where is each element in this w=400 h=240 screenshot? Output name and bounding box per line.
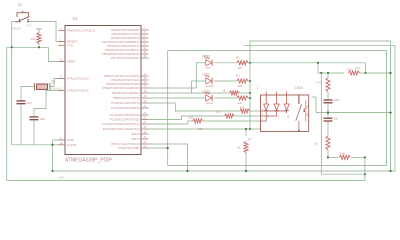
resistor R12 1k	[230, 91, 239, 95]
pin PD5(T1/OC0B) stub	[141, 147, 149, 149]
svg-text:PB5(SCK/PCINT5): PB5(SCK/PCINT5)	[113, 96, 139, 100]
wire long vertical mid	[167, 51, 169, 166]
wire C1 to GND	[20, 104, 22, 145]
wire right column outer vertical to riser	[321, 73, 365, 174]
junction col mid 2	[327, 112, 329, 114]
resistor R8 10k	[349, 71, 360, 75]
svg-text:B: B	[288, 115, 290, 118]
junction long vertical	[167, 147, 169, 149]
svg-text:9: 9	[60, 76, 62, 79]
svg-text:AREF: AREF	[67, 60, 75, 64]
LED4 common switch element	[296, 95, 302, 131]
resistor R6 220	[193, 119, 203, 123]
wire pin to GND vertical	[149, 147, 168, 149]
pin XTAL1(TOSC1) stub	[58, 78, 65, 80]
pin ADC7 stub	[141, 138, 149, 140]
pin PB0(PCINT0/CLKO/ICP1) stub	[141, 75, 149, 77]
svg-text:R4: R4	[240, 106, 244, 110]
svg-text:VCC: VCC	[26, 24, 32, 28]
wire 10k right	[360, 72, 391, 74]
pin ADC6 stub	[141, 133, 149, 135]
pin VCC stub	[58, 44, 65, 46]
junction VCC bus bottom	[249, 128, 251, 130]
junction col bottom	[327, 156, 329, 158]
wire switch to RESET pin	[28, 22, 65, 42]
wire to LED2	[192, 80, 206, 82]
wire bundle 5	[149, 128, 261, 130]
wire VCC bus vertical and top rail	[250, 41, 391, 129]
junction VCC bus row LED1	[249, 62, 251, 64]
pin PC5(ADC5/SCL/PCINT13) stub	[141, 128, 149, 130]
junction RESET net B	[38, 46, 40, 48]
svg-text:ATMEGA328P_PDIP: ATMEGA328P_PDIP	[65, 158, 113, 164]
svg-text:10k: 10k	[31, 37, 36, 41]
wire R7 to GND	[245, 153, 247, 172]
svg-text:VCC: VCC	[67, 44, 74, 48]
svg-text:22: 22	[60, 142, 63, 145]
svg-text:ADC6: ADC6	[131, 132, 140, 136]
svg-text:XTAL1(TOSC1): XTAL1(TOSC1)	[67, 77, 89, 81]
wire GND rail inner	[168, 165, 387, 167]
wire pin to LED2 row a	[149, 92, 230, 94]
wire GND rail bottom middle	[53, 170, 396, 172]
svg-text:8: 8	[60, 137, 62, 140]
pin PC1(ADC1/PCINT9) stub	[141, 107, 149, 109]
wire R7 top lead	[245, 129, 247, 136]
junction pin144 rail	[186, 170, 188, 172]
pin RESET stub	[58, 41, 65, 43]
LED LED3	[205, 92, 212, 101]
RGB LED module LED4 box	[261, 95, 309, 132]
pin PB4(PCINT4/MISO) stub	[141, 92, 149, 94]
wire col seg2	[327, 92, 329, 99]
pin PD1(PCINT17/TXD) stub	[141, 33, 149, 35]
svg-text:R1: R1	[236, 55, 240, 59]
svg-text:XTAL2(TOSC2): XTAL2(TOSC2)	[67, 89, 89, 93]
junction LED4 common pin	[298, 130, 300, 132]
svg-text:LED3: LED3	[202, 90, 210, 94]
wire R12 to bus	[239, 92, 250, 94]
pin PB3(PCINT3/OC2A/MOSI) stub	[141, 87, 149, 89]
svg-text:4.7k: 4.7k	[317, 81, 323, 85]
pin GND stub	[58, 139, 65, 141]
junction col left top	[320, 72, 322, 74]
switch S1 pad 1	[19, 21, 21, 23]
wire LED1 riser	[195, 63, 197, 88]
wire LED3 to resistor	[214, 97, 237, 99]
svg-text:AGND: AGND	[67, 143, 77, 147]
svg-text:VCC: VCC	[355, 66, 361, 70]
junction riser A rail	[389, 170, 391, 172]
wire net horizontal left	[7, 46, 49, 48]
resistor R2 220	[237, 79, 248, 83]
LED LED1	[205, 57, 212, 66]
wire mid right horizontal	[316, 112, 391, 114]
svg-text:22p: 22p	[40, 117, 45, 121]
pin PB7(XTAL2/TOSC2) stub	[141, 143, 149, 145]
switch S1	[16, 11, 30, 23]
pin AREF stub	[58, 61, 65, 63]
svg-text:R2: R2	[236, 74, 240, 78]
svg-text:PC0(ADC0/PCINT8): PC0(ADC0/PCINT8)	[111, 101, 139, 105]
junction RESET net A	[11, 46, 13, 48]
resistor R5 220	[225, 114, 235, 118]
pin PB5(SCK/PCINT5) stub	[141, 97, 149, 99]
pin PC4(ADC4/SDA/PCINT12) stub	[141, 123, 149, 125]
svg-text:G: G	[278, 115, 280, 118]
svg-text:LED2: LED2	[202, 73, 210, 77]
wire bundle 2 left	[149, 116, 225, 120]
svg-text:220: 220	[238, 66, 243, 70]
wire LED3 resistor to VCC bus	[248, 97, 250, 99]
svg-text:16MHz: 16MHz	[51, 87, 60, 91]
svg-text:ADC7: ADC7	[131, 137, 140, 141]
pin PD5(PCINT21/OC0B/T1) stub	[141, 49, 149, 51]
svg-text:100n: 100n	[334, 98, 341, 102]
wire bundle 1 left	[149, 103, 240, 111]
svg-text:RESET: RESET	[13, 27, 22, 31]
svg-text:220: 220	[238, 84, 243, 88]
LED4 cell G	[274, 92, 279, 114]
wire R1 top to VCC	[38, 29, 40, 33]
pin PB1(PCINT1/OC1A) stub	[141, 79, 149, 81]
wire pin to LED1 row a	[149, 87, 197, 89]
junction VCC bus row LED3	[249, 97, 251, 99]
svg-text:PC1(ADC1/PCINT9): PC1(ADC1/PCINT9)	[111, 106, 139, 110]
resistor R10 1k	[326, 136, 330, 150]
junction GND net	[51, 144, 53, 146]
wire riser to bottom rail	[364, 157, 366, 180]
svg-text:R3: R3	[236, 91, 240, 95]
svg-text:PC5(ADC5/SCL/PCINT13): PC5(ADC5/SCL/PCINT13)	[103, 127, 140, 131]
svg-text:GND: GND	[58, 176, 64, 180]
junction bottom right	[364, 156, 366, 158]
pin PB6(XTAL1/TOSC1) stub	[58, 30, 65, 32]
pin PB2(PCINT2/SS/OC1B) stub	[141, 83, 149, 85]
svg-text:green: green	[206, 101, 214, 105]
svg-text:7: 7	[60, 42, 62, 45]
svg-text:9: 9	[60, 28, 62, 31]
wire bottom 10k right	[351, 156, 365, 158]
svg-text:1k: 1k	[238, 146, 242, 150]
junction x318 top	[317, 62, 319, 64]
pin PD6(PCINT22/OC0A/AIN0) stub	[141, 53, 149, 55]
wire GND vertical	[52, 140, 54, 171]
wire bundle 2 right	[234, 115, 260, 117]
wire GND pin	[53, 139, 66, 141]
wire right riser B	[394, 45, 396, 171]
wire R1 bottom	[38, 44, 40, 48]
LED4 cell G internal connection	[261, 113, 277, 116]
svg-text:10u: 10u	[334, 117, 339, 121]
wire to AREF pin	[48, 47, 65, 61]
wire XTAL2 to C2	[34, 90, 65, 116]
pin PD2(PCINT18/INT0) stub	[141, 37, 149, 39]
wire GND rail bottom outer	[7, 47, 365, 180]
LED4 photo arrows	[304, 100, 309, 122]
svg-text:22p: 22p	[27, 101, 32, 105]
svg-text:220: 220	[216, 110, 221, 114]
junction R7 top	[245, 128, 247, 130]
crystal Q1	[34, 83, 50, 90]
wire col seg5	[327, 150, 329, 158]
pin PD0(PCINT16/RXD) stub	[141, 29, 149, 31]
svg-text:21: 21	[60, 59, 63, 62]
junction col mid	[327, 112, 329, 114]
wire riser x318	[317, 63, 319, 73]
wire right riser A	[390, 41, 392, 171]
pin PC2(ADC2/PCINT10) stub	[141, 114, 149, 116]
svg-text:10: 10	[60, 87, 63, 90]
wire col seg4	[327, 121, 329, 136]
junction R7 GND	[245, 170, 247, 172]
svg-text:U1: U1	[73, 16, 79, 21]
wire LED1 to resistor	[214, 62, 237, 64]
pin PD4(PCINT20/XCK/T0) stub	[141, 45, 149, 47]
svg-text:S1: S1	[18, 3, 22, 7]
junction right riser	[389, 72, 391, 74]
wire XTAL1 to crystal	[50, 79, 65, 87]
svg-text:GND: GND	[67, 138, 75, 142]
capacitor C2 22p	[30, 117, 39, 120]
wire LED1 resistor to VCC bus	[248, 62, 250, 64]
wire box right stub	[312, 96, 317, 98]
resistor R11 10k	[339, 155, 350, 159]
pin XTAL2(TOSC2) stub	[58, 89, 65, 91]
wire top rail B	[244, 44, 396, 46]
junction GND rail	[51, 170, 53, 172]
wire to LED1	[196, 62, 205, 64]
wire switch to RESET net	[12, 22, 20, 48]
svg-text:PD7(PCINT23/AIN1): PD7(PCINT23/AIN1)	[111, 56, 140, 60]
wire LED2 riser	[191, 81, 193, 93]
svg-text:1: 1	[257, 87, 259, 90]
wire col seg3	[327, 103, 329, 117]
svg-text:220: 220	[189, 116, 194, 120]
wire top rail C	[168, 50, 387, 52]
wire right riser C	[386, 51, 388, 166]
LED4 cell R	[264, 92, 269, 114]
junction right riser bottom	[389, 112, 391, 114]
svg-text:1k: 1k	[223, 89, 227, 93]
resistor R4 220	[240, 109, 250, 113]
resistor R7 1k	[244, 142, 248, 153]
svg-text:red: red	[206, 66, 210, 70]
wire bundle 1 right	[249, 110, 260, 112]
svg-text:R7: R7	[248, 138, 252, 142]
resistor R1 220	[237, 61, 248, 65]
junction riser mid	[364, 173, 366, 175]
pin PD7(PCINT23/AIN1) stub	[141, 57, 149, 59]
svg-text:LED4: LED4	[295, 86, 303, 90]
LED LED2	[205, 75, 212, 84]
wire LED2 to resistor	[214, 80, 237, 82]
pin AGND stub	[58, 144, 65, 146]
wire bundle 3 right	[202, 120, 260, 122]
resistor R1 10k pullup	[37, 33, 41, 44]
junction col top	[327, 72, 329, 74]
wire crystal to C1	[21, 87, 34, 101]
junction rail right	[364, 72, 366, 74]
svg-text:Q1: Q1	[51, 80, 55, 84]
wire LED2 resistor to VCC bus	[248, 80, 250, 82]
svg-text:1: 1	[60, 39, 62, 42]
wire AGND pin	[12, 144, 65, 146]
pin PC3(ADC3/PCINT11) stub	[141, 119, 149, 121]
wire 10k left	[318, 72, 344, 74]
junction bus mid	[249, 92, 251, 94]
wire pin144 to GND rail	[149, 144, 188, 171]
resistor R3 220	[237, 96, 248, 100]
pin PC0(ADC0/PCINT8) stub	[141, 102, 149, 104]
wire box right riser	[315, 97, 317, 113]
junction VCC bus row LED2	[249, 80, 251, 82]
wire C2 to GND	[33, 120, 35, 145]
svg-text:VCC: VCC	[203, 55, 210, 59]
switch S1 pad 2	[27, 21, 29, 23]
LED4 cell B internal connection	[261, 111, 287, 113]
svg-text:PB3(PCINT3/OC2A/MOSI): PB3(PCINT3/OC2A/MOSI)	[103, 86, 140, 90]
svg-text:1k: 1k	[315, 142, 319, 146]
wire bottom 10k left	[328, 156, 339, 158]
wire rail riser right	[365, 63, 367, 73]
capacitor C4 10u	[324, 118, 333, 121]
wire left vertical to GND	[11, 47, 13, 145]
svg-text:PB4(PCINT4/MISO): PB4(PCINT4/MISO)	[112, 91, 140, 95]
wire bundle 3 left	[149, 121, 193, 124]
wire col seg1	[327, 73, 329, 78]
wire pin to LED3 row	[149, 97, 206, 99]
svg-text:PC3(ADC3/PCINT11): PC3(ADC3/PCINT11)	[110, 118, 140, 122]
wire row1 net to right section	[250, 62, 366, 64]
LED4 cell B	[284, 92, 289, 114]
op-amp U1 body (microcontroller ATMEGA328P)	[65, 26, 141, 155]
svg-text:PD5(T1/OC0B): PD5(T1/OC0B)	[119, 146, 140, 150]
capacitor C3 100n	[324, 100, 333, 103]
svg-text:PC2(ADC2/PCINT10): PC2(ADC2/PCINT10)	[110, 113, 140, 117]
svg-text:PB6(XTAL1/TOSC1): PB6(XTAL1/TOSC1)	[67, 29, 95, 33]
svg-text:PC4(ADC4/SDA/PCINT12): PC4(ADC4/SDA/PCINT12)	[102, 122, 139, 126]
supply VCC symbol	[36, 28, 41, 30]
capacitor C1 22p	[17, 101, 26, 104]
svg-text:yellow: yellow	[206, 84, 215, 88]
pin PD3(PCINT19/OC2B/INT1) stub	[141, 41, 149, 43]
LED4 cell R internal connection	[261, 113, 267, 121]
resistor R9 4.7k	[326, 78, 330, 92]
